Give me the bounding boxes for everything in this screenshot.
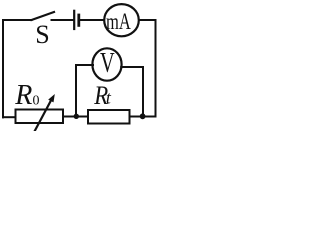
svg-text:S: S	[35, 20, 49, 49]
svg-text:0: 0	[33, 94, 40, 109]
svg-text:mA: mA	[106, 10, 131, 35]
svg-text:R: R	[14, 80, 32, 111]
svg-text:V: V	[100, 48, 115, 79]
svg-text:t: t	[106, 88, 112, 108]
